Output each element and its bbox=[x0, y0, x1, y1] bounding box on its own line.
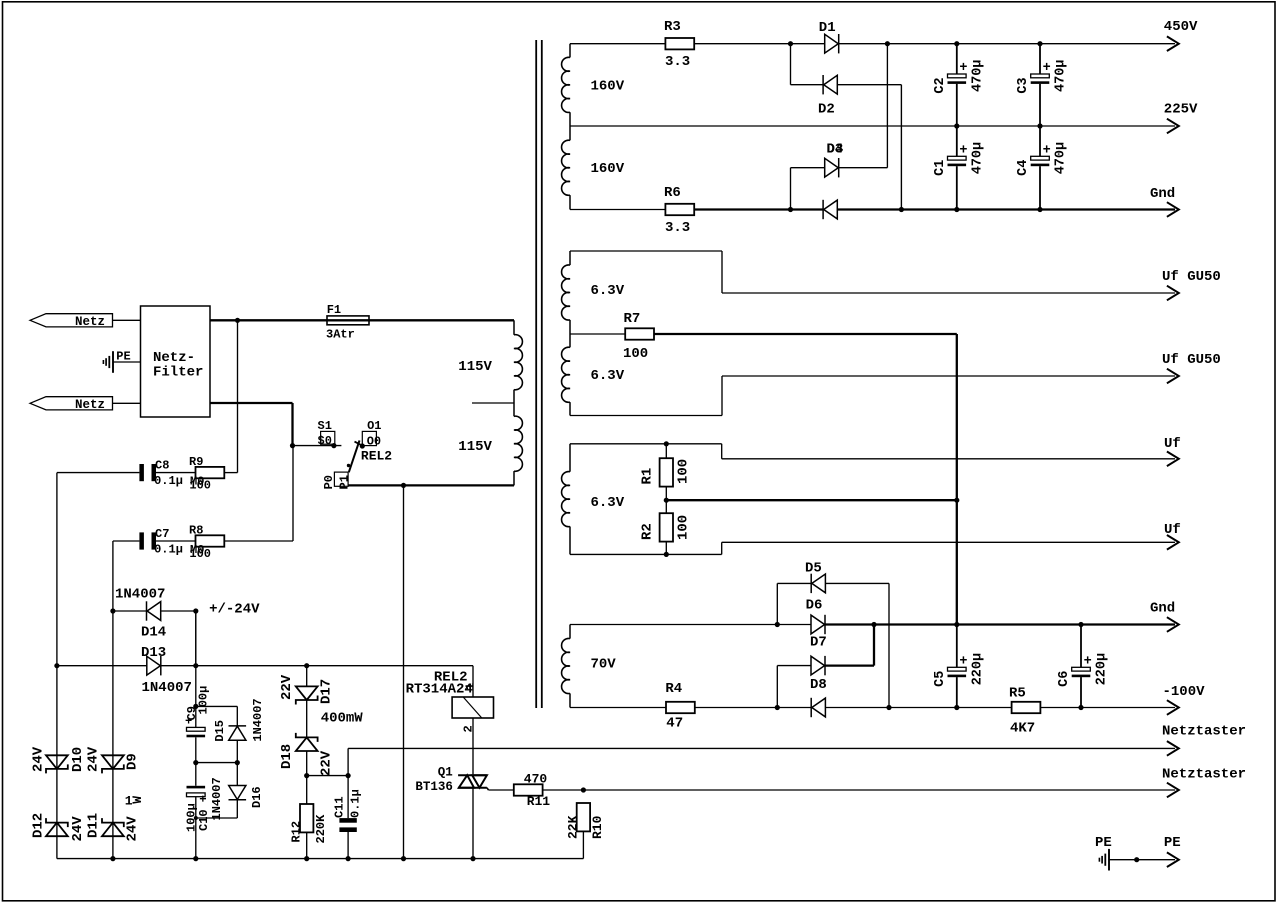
svg-text:R12: R12 bbox=[290, 821, 304, 843]
svg-text:+: + bbox=[1043, 61, 1051, 76]
svg-text:W: W bbox=[130, 796, 145, 804]
svg-text:+: + bbox=[185, 715, 192, 729]
svg-text:C11: C11 bbox=[333, 796, 347, 818]
svg-text:1N4007: 1N4007 bbox=[210, 777, 224, 820]
svg-text:R9: R9 bbox=[189, 455, 203, 469]
svg-text:0.1µ: 0.1µ bbox=[349, 789, 363, 818]
svg-text:D16: D16 bbox=[250, 786, 264, 808]
svg-text:D11: D11 bbox=[86, 813, 102, 838]
svg-text:R1: R1 bbox=[640, 468, 656, 485]
svg-text:400mW: 400mW bbox=[321, 711, 364, 727]
svg-text:115V: 115V bbox=[458, 439, 492, 455]
svg-text:1N4007: 1N4007 bbox=[115, 587, 165, 603]
svg-text:47: 47 bbox=[666, 716, 683, 732]
svg-text:115V: 115V bbox=[458, 359, 492, 375]
svg-text:Netztaster: Netztaster bbox=[1162, 767, 1246, 783]
svg-text:470µ: 470µ bbox=[1054, 142, 1069, 174]
svg-text:D1: D1 bbox=[819, 20, 836, 36]
svg-text:D6: D6 bbox=[806, 598, 823, 614]
svg-text:D14: D14 bbox=[141, 625, 166, 641]
svg-text:R10: R10 bbox=[590, 815, 605, 839]
svg-text:C6: C6 bbox=[1057, 671, 1072, 687]
svg-text:D10: D10 bbox=[70, 747, 86, 772]
svg-text:C10 +: C10 + bbox=[197, 795, 211, 831]
svg-text:C2: C2 bbox=[933, 77, 948, 93]
svg-text:100: 100 bbox=[189, 547, 211, 561]
svg-text:6.3V: 6.3V bbox=[591, 495, 625, 511]
svg-text:Netz: Netz bbox=[75, 398, 105, 412]
svg-text:C1: C1 bbox=[933, 160, 948, 176]
svg-text:R6: R6 bbox=[664, 185, 681, 201]
svg-text:450V: 450V bbox=[1164, 19, 1198, 35]
svg-text:0.1µ: 0.1µ bbox=[154, 542, 183, 556]
svg-text:Netztaster: Netztaster bbox=[1162, 724, 1246, 740]
svg-text:160V: 160V bbox=[591, 161, 625, 177]
svg-text:+: + bbox=[959, 143, 967, 158]
svg-text:470: 470 bbox=[524, 772, 548, 787]
svg-text:R11: R11 bbox=[527, 794, 551, 809]
svg-text:PE: PE bbox=[1095, 835, 1112, 851]
svg-text:O0: O0 bbox=[367, 434, 381, 448]
svg-text:4K7: 4K7 bbox=[1010, 721, 1035, 737]
svg-text:Uf GU50: Uf GU50 bbox=[1162, 269, 1221, 285]
svg-text:D7: D7 bbox=[810, 635, 827, 651]
svg-text:R4: R4 bbox=[665, 681, 682, 697]
svg-text:6.3V: 6.3V bbox=[591, 368, 625, 384]
svg-text:3.3: 3.3 bbox=[665, 54, 690, 70]
svg-text:1N4007: 1N4007 bbox=[142, 680, 192, 696]
svg-text:Gnd: Gnd bbox=[1150, 186, 1175, 202]
svg-text:22K: 22K bbox=[566, 815, 581, 839]
svg-text:220µ: 220µ bbox=[970, 653, 985, 685]
svg-text:R5: R5 bbox=[1009, 686, 1026, 702]
svg-text:24V: 24V bbox=[31, 746, 47, 772]
svg-text:70V: 70V bbox=[591, 657, 617, 673]
svg-text:R2: R2 bbox=[640, 523, 656, 540]
svg-text:$0: $0 bbox=[318, 434, 332, 448]
svg-text:D18: D18 bbox=[279, 744, 295, 769]
svg-text:Netz: Netz bbox=[75, 315, 105, 329]
svg-text:R3: R3 bbox=[664, 19, 681, 35]
svg-text:BT136: BT136 bbox=[415, 780, 453, 794]
svg-text:100µ: 100µ bbox=[197, 686, 211, 715]
svg-text:F1: F1 bbox=[327, 303, 341, 317]
svg-text:2: 2 bbox=[462, 725, 476, 732]
svg-text:470µ: 470µ bbox=[970, 142, 985, 174]
svg-text:Uf: Uf bbox=[1164, 436, 1181, 452]
svg-text:24V: 24V bbox=[86, 746, 102, 772]
svg-text:D12: D12 bbox=[31, 813, 47, 838]
svg-text:24V: 24V bbox=[70, 816, 86, 842]
svg-text:Q1: Q1 bbox=[438, 766, 453, 780]
svg-text:225V: 225V bbox=[1164, 102, 1198, 118]
svg-text:24V: 24V bbox=[125, 816, 141, 842]
svg-text:22V: 22V bbox=[319, 750, 335, 776]
svg-text:D5: D5 bbox=[805, 561, 822, 577]
svg-text:100: 100 bbox=[676, 459, 692, 484]
svg-text:470µ: 470µ bbox=[1054, 60, 1069, 92]
svg-text:C7: C7 bbox=[155, 527, 169, 541]
svg-text:160V: 160V bbox=[591, 79, 625, 95]
svg-text:100: 100 bbox=[189, 479, 211, 493]
svg-text:C3: C3 bbox=[1016, 77, 1031, 93]
svg-text:C8: C8 bbox=[155, 458, 169, 472]
svg-text:6.3V: 6.3V bbox=[591, 283, 625, 299]
svg-text:+/-24V: +/-24V bbox=[209, 602, 260, 618]
svg-text:100: 100 bbox=[676, 515, 692, 540]
svg-text:REL2: REL2 bbox=[361, 448, 392, 463]
svg-text:PE: PE bbox=[116, 350, 130, 364]
svg-text:1: 1 bbox=[463, 683, 477, 690]
svg-text:470µ: 470µ bbox=[970, 60, 985, 92]
svg-text:+: + bbox=[1084, 654, 1092, 669]
svg-text:D9: D9 bbox=[125, 753, 141, 770]
svg-text:100: 100 bbox=[623, 346, 648, 362]
svg-text:D2: D2 bbox=[818, 102, 835, 118]
svg-text:3Atr: 3Atr bbox=[326, 328, 355, 342]
svg-text:220K: 220K bbox=[314, 814, 328, 844]
svg-text:PE: PE bbox=[1164, 835, 1181, 851]
svg-text:+: + bbox=[959, 654, 967, 669]
svg-text:0.1µ: 0.1µ bbox=[154, 474, 183, 488]
svg-text:Uf GU50: Uf GU50 bbox=[1162, 352, 1221, 368]
svg-text:220µ: 220µ bbox=[1095, 653, 1110, 685]
svg-text:R7: R7 bbox=[624, 311, 641, 327]
svg-text:R8: R8 bbox=[189, 523, 203, 537]
svg-text:Filter: Filter bbox=[153, 365, 203, 381]
svg-text:D17: D17 bbox=[319, 679, 335, 704]
svg-text:-100V: -100V bbox=[1163, 684, 1206, 700]
svg-text:D13: D13 bbox=[141, 645, 166, 661]
svg-text:Gnd: Gnd bbox=[1150, 601, 1175, 617]
svg-text:P1: P1 bbox=[337, 475, 351, 489]
svg-text:+: + bbox=[959, 61, 967, 76]
svg-text:C4: C4 bbox=[1016, 160, 1031, 176]
svg-text:D15: D15 bbox=[213, 720, 227, 742]
svg-text:1N4007: 1N4007 bbox=[251, 698, 265, 741]
svg-text:D8: D8 bbox=[810, 677, 827, 693]
svg-text:Uf: Uf bbox=[1164, 522, 1181, 538]
svg-text:22V: 22V bbox=[279, 674, 295, 700]
svg-text:D4: D4 bbox=[827, 142, 844, 158]
svg-text:+: + bbox=[1043, 143, 1051, 158]
svg-text:3.3: 3.3 bbox=[665, 220, 690, 236]
svg-text:C5: C5 bbox=[933, 671, 948, 687]
